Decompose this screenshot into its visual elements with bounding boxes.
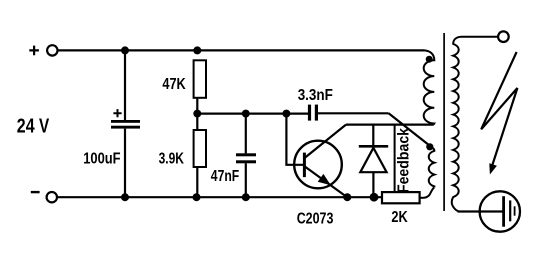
transistor Q1 C2073 (NPN): [294, 125, 346, 197]
svg-text:3.3nF: 3.3nF: [298, 87, 333, 104]
node 47K/3.9K junction: [193, 110, 201, 118]
node 100uF bottom: [121, 193, 129, 201]
svg-text:Feedback: Feedback: [396, 128, 413, 193]
wire 2K to feedback winding bottom: [420, 187, 435, 198]
resistor R1 47K: [194, 60, 206, 98]
svg-text:3.9K: 3.9K: [159, 151, 185, 168]
node 47nF bottom: [242, 193, 250, 201]
node diode-rail: [370, 193, 379, 202]
wire base feed line: [197, 112, 308, 114]
wire collector line: [346, 123, 434, 125]
svg-text:100uF: 100uF: [83, 151, 120, 168]
node emitter-rail: [343, 193, 351, 201]
node 3.9K bottom: [193, 193, 201, 201]
transformer T1 primary winding: [424, 50, 435, 124]
terminal - (negative input): [31, 192, 57, 202]
resistor R3 2K: [382, 192, 420, 203]
svg-text:2K: 2K: [391, 209, 408, 226]
node 47nF top: [242, 110, 250, 118]
svg-text:V: V: [39, 115, 49, 138]
transformer T1 feedback winding: [426, 143, 434, 187]
svg-text:C2073: C2073: [297, 211, 334, 228]
terminal HV output: [498, 31, 509, 42]
node junction top of 100uF: [121, 46, 129, 54]
node junction top of 47K: [193, 46, 201, 54]
svg-text:47nF: 47nF: [211, 168, 239, 185]
wire collector line to 2K top: [394, 125, 396, 193]
capacitor C1 100uF (polarized): [111, 50, 140, 197]
capacitor C3 3.3nF: [308, 105, 389, 121]
terminal + (positive input): [29, 45, 57, 55]
capacitor C2 47nF: [236, 114, 256, 198]
node base branch: [282, 110, 290, 118]
diode D1: [359, 146, 388, 194]
spark discharge arrow (lightning bolt): [481, 52, 517, 175]
ground electrode (earth in circle): [480, 191, 520, 231]
wire 47K bottom to 3.9K top: [196, 98, 198, 130]
wire base drop: [286, 114, 303, 165]
transformer T1 secondary winding: [452, 37, 498, 212]
transformer core: [443, 33, 445, 211]
svg-text:47K: 47K: [162, 76, 186, 93]
wire 3.3nF to feedback winding top (diagonal): [389, 113, 430, 145]
wire top rail: [58, 49, 425, 51]
resistor R2 3.9K: [194, 130, 206, 197]
wire bottom rail: [57, 196, 383, 198]
wire diode top drop: [372, 125, 374, 147]
svg-text:24: 24: [17, 115, 35, 138]
wire secondary bottom to ground electrode: [458, 210, 503, 212]
